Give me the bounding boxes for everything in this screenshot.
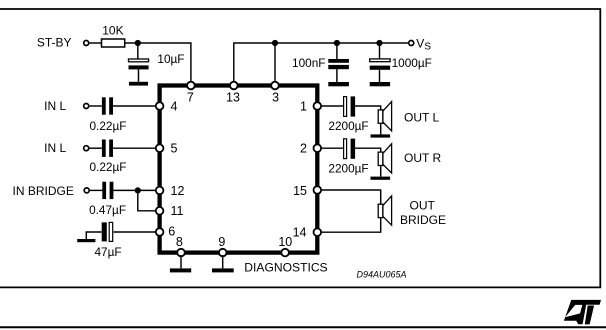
wire top rail pin13 to VS (234, 43, 408, 83)
wire IN L 2 to cap (89, 147, 102, 149)
capacitor C2 100nF plate 2 (328, 65, 349, 69)
svg-text:3: 3 (272, 91, 279, 105)
svg-text:13: 13 (226, 91, 240, 105)
wire pin 1 to C8 (321, 105, 344, 107)
pin 3 (271, 82, 279, 90)
svg-text:2200µF: 2200µF (328, 119, 368, 133)
wire C5 to pin 5 (113, 147, 157, 149)
svg-text:0.47µF: 0.47µF (89, 203, 126, 217)
svg-text:0.22µF: 0.22µF (90, 160, 127, 174)
wire IN BRIDGE to cap (90, 189, 103, 191)
pin 1 (314, 102, 322, 110)
wire pin 9 to ground (222, 255, 224, 268)
pin 13 (230, 82, 238, 90)
wire 10uF to ground (138, 69, 140, 81)
ground below pin 8 (170, 268, 191, 272)
svg-text:7: 7 (187, 91, 194, 105)
ground below pin 9 (212, 268, 234, 272)
ground below 10uF (129, 82, 148, 86)
capacitor C4 0.22uF plates (102, 97, 106, 114)
capacitor C7 47uF minus plate (102, 222, 107, 241)
wire 1000uF to ground (379, 70, 381, 82)
ground below OUT L speaker (371, 134, 391, 137)
svg-text:47µF: 47µF (95, 245, 122, 259)
svg-text:2: 2 (300, 142, 307, 156)
wire 1000uF riser (379, 43, 381, 59)
speaker OUT R (378, 144, 391, 173)
wire 100nF to ground (336, 69, 338, 82)
pin 11 (156, 207, 164, 215)
pin 15 (314, 186, 322, 194)
svg-text:10µF: 10µF (157, 52, 184, 66)
svg-text:OUT R: OUT R (404, 151, 441, 165)
terminal IN L row 1 (84, 104, 89, 109)
wire ground to 47uF (86, 232, 101, 239)
wire pin 15 to bridge speaker top (321, 190, 381, 204)
wire resistor to pin 7 (125, 43, 191, 83)
svg-text:5: 5 (171, 142, 178, 156)
svg-text:IN L: IN L (44, 99, 66, 113)
capacitor C8 2200uF plus plate (344, 97, 347, 117)
pin 2 (314, 144, 322, 152)
terminal IN L row 2 (84, 146, 89, 151)
svg-text:0.22µF: 0.22µF (90, 119, 127, 133)
pin 6 (156, 228, 164, 236)
pin 4 (156, 102, 164, 110)
pin 8 (177, 249, 185, 257)
speaker OUT L (378, 102, 391, 131)
terminal VS (409, 41, 414, 46)
junction 100nF (334, 40, 340, 46)
capacitor C3 1000uF plus plate (370, 59, 390, 62)
pin 14 (314, 228, 322, 236)
svg-text:OUT: OUT (410, 199, 436, 213)
pin 7 (187, 82, 195, 90)
svg-text:12: 12 (171, 184, 185, 198)
wire junction to 10uF (137, 43, 139, 59)
wire ST-BY to resistor (89, 42, 101, 44)
wire C6 to pin 12 (113, 189, 157, 191)
svg-text:IN L: IN L (44, 141, 66, 155)
wire C4 to pin 4 (113, 105, 157, 107)
wire junction to pin 11 (138, 190, 157, 210)
svg-text:IN BRIDGE: IN BRIDGE (13, 184, 74, 198)
page bottom rule (0, 326, 606, 328)
capacitor C1 10uF plus plate (129, 59, 149, 62)
wire C9 to speaker OUT R (355, 148, 381, 152)
capacitor C1 10uF minus plate (129, 65, 149, 69)
wire pin 2 to C9 (321, 147, 344, 149)
svg-text:ST-BY: ST-BY (37, 36, 72, 50)
svg-text:V: V (416, 37, 424, 51)
ST logo (564, 300, 601, 325)
ground 47uF (77, 239, 95, 242)
svg-text:14: 14 (293, 225, 307, 239)
svg-text:DIAGNOSTICS: DIAGNOSTICS (244, 260, 327, 274)
wire IN L 1 to cap (89, 105, 102, 107)
svg-text:1000µF: 1000µF (392, 56, 432, 70)
wire C8 to speaker OUT L (355, 106, 381, 110)
svg-text:100nF: 100nF (292, 56, 325, 70)
wire pin 14 to bridge speaker bottom (321, 218, 381, 233)
svg-text:2200µF: 2200µF (328, 161, 368, 175)
junction IN BRIDGE node (135, 187, 141, 193)
svg-text:9: 9 (218, 235, 225, 249)
pin 10 (281, 249, 289, 257)
ground below 1000uF (370, 82, 390, 86)
svg-text:11: 11 (171, 204, 184, 218)
capacitor C5 0.22uF plates (102, 140, 106, 157)
junction 1000uF (376, 40, 382, 46)
capacitor C6 0.47uF plates (102, 182, 106, 199)
ground below 100nF (328, 82, 349, 86)
svg-text:1: 1 (300, 100, 307, 114)
svg-text:4: 4 (171, 100, 178, 114)
svg-text:D94AU065A: D94AU065A (357, 269, 407, 279)
pin 12 (156, 187, 164, 195)
speaker OUT BRIDGE (378, 196, 391, 225)
capacitor C9 2200uF minus plate (351, 139, 356, 159)
wire speaker OUT R to ground (380, 166, 382, 177)
svg-text:8: 8 (176, 235, 183, 249)
svg-text:15: 15 (293, 184, 307, 198)
capacitor C3 1000uF minus plate (370, 66, 390, 70)
capacitor C8 2200uF minus plate (351, 96, 356, 116)
svg-text:10: 10 (278, 235, 292, 249)
ground below OUT R speaker (371, 177, 391, 180)
pin 5 (156, 144, 164, 152)
svg-text:BRIDGE: BRIDGE (400, 213, 446, 227)
wire speaker OUT L to ground (380, 123, 382, 134)
terminal ST-BY (84, 41, 89, 46)
svg-text:10K: 10K (102, 24, 123, 38)
svg-text:OUT L: OUT L (404, 110, 439, 124)
resistor R1 10K (102, 39, 125, 47)
capacitor C2 100nF plate 1 (328, 59, 349, 63)
svg-text:S: S (424, 42, 431, 53)
pin 9 (219, 249, 227, 257)
wire 100nF riser (336, 43, 338, 59)
wire C7 to pin 6 (114, 231, 157, 233)
capacitor C7 47uF plus plate (109, 222, 113, 241)
wire pin 8 to ground (180, 255, 182, 268)
junction above pin 3 (272, 40, 278, 46)
wire pin 3 riser (274, 43, 276, 83)
terminal IN BRIDGE (84, 188, 89, 193)
capacitor C9 2200uF plus plate (344, 139, 347, 159)
svg-text:6: 6 (168, 224, 175, 238)
junction ST-BY node (135, 40, 141, 46)
IC U1 body (160, 86, 318, 253)
